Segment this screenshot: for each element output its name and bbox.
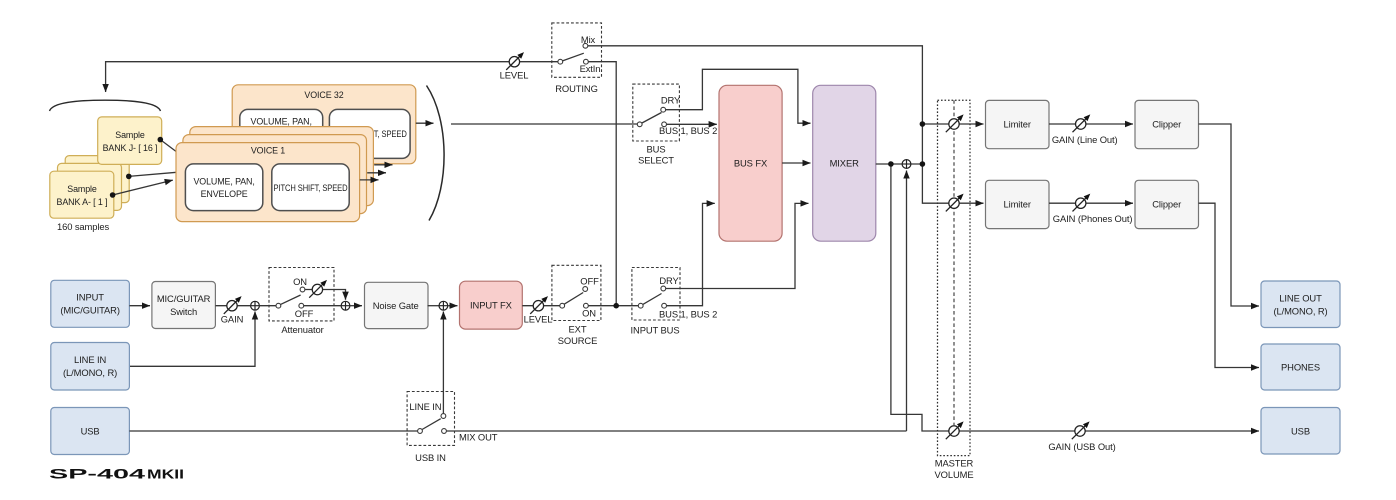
voice card VOICE 32	[232, 85, 416, 164]
wire voice stack A output arrow	[374, 164, 392, 166]
svg-text:BUS FX: BUS FX	[734, 158, 768, 169]
svg-text:DRY: DRY	[659, 275, 679, 286]
svg-text:BUS 1, BUS 2: BUS 1, BUS 2	[659, 125, 717, 136]
wire input bus DRY to mixer	[666, 203, 809, 288]
node mixer output tee	[888, 161, 894, 167]
wire sum to noise gate	[350, 305, 362, 307]
label EXT SOURCE	[558, 323, 598, 346]
svg-text:INPUT BUS: INPUT BUS	[631, 325, 680, 336]
wire mixer output down to USB out line	[891, 164, 1259, 431]
svg-text:Mix: Mix	[581, 34, 596, 45]
block LINE IN (L/MONO, R)	[51, 343, 130, 391]
wire limiter to clipper (line out)	[1049, 123, 1133, 125]
svg-text:GAIN (USB Out): GAIN (USB Out)	[1048, 441, 1115, 452]
sample bank A stack back card	[65, 156, 129, 203]
svg-text:PITCH SHIFT, SPEED: PITCH SHIFT, SPEED	[274, 183, 348, 193]
svg-text:Attenuator: Attenuator	[281, 324, 323, 335]
wire limiter to clipper (phones)	[1049, 202, 1133, 204]
block PHONES	[1261, 344, 1340, 390]
svg-text:INPUT FX: INPUT FX	[470, 300, 513, 311]
summing node input 3	[439, 301, 448, 310]
node output bus junction	[920, 161, 926, 167]
svg-text:Noise Gate: Noise Gate	[373, 300, 419, 311]
wire Mix to output bus	[588, 46, 984, 203]
voice stack middle card A	[190, 127, 374, 206]
wire voices to BUS SELECT	[451, 123, 637, 125]
block INPUT (MIC/GUITAR)	[51, 280, 130, 327]
svg-text:PHONES: PHONES	[1281, 362, 1320, 373]
svg-text:VOICE 32: VOICE 32	[304, 90, 343, 100]
voice stack middle card B	[183, 135, 367, 214]
svg-text:USB: USB	[1291, 425, 1310, 436]
svg-text:MIX OUT: MIX OUT	[459, 432, 498, 443]
wire input to mic/guitar switch	[129, 305, 150, 307]
node ext-in junction	[613, 303, 619, 309]
wire sum to INPUT FX	[448, 305, 457, 307]
wire attenuator ON path	[305, 290, 345, 300]
wire usb line-in branch up to sum	[442, 312, 444, 414]
attenuator GAIN (USB Out)	[1072, 421, 1090, 439]
attenuator symbol (attenuator ON branch)	[309, 280, 327, 298]
summing node input 1	[251, 301, 260, 310]
attenuator GAIN (input)	[224, 296, 242, 314]
wire bank J to voice 1	[158, 137, 177, 152]
wire voice 1 output arrow	[360, 179, 379, 181]
svg-text:Sample: Sample	[115, 130, 145, 140]
svg-text:BUS 1, BUS 2: BUS 1, BUS 2	[659, 309, 717, 320]
svg-text:LINE IN: LINE IN	[74, 354, 106, 365]
closing paren voices group	[427, 86, 445, 221]
svg-text:MIXER: MIXER	[830, 158, 860, 169]
attenuator master volume (phones)	[946, 194, 964, 212]
wire input fx to ext source via LEVEL	[522, 305, 561, 307]
label MASTER VOLUME	[935, 458, 974, 480]
switch BUS SELECT	[633, 84, 681, 141]
block BUS FX	[719, 85, 782, 241]
wire bus select DRY to mixer (over bus fx)	[666, 69, 811, 123]
sample card BANK A- [1]	[50, 171, 114, 218]
wire noise gate to sum	[428, 305, 439, 307]
block Noise Gate	[365, 282, 429, 328]
svg-text:ENVELOPE: ENVELOPE	[201, 189, 248, 199]
svg-text:VOICE 1: VOICE 1	[251, 146, 285, 156]
block USB (in)	[51, 408, 130, 455]
svg-text:Limiter: Limiter	[1003, 119, 1030, 130]
svg-text:(MIC/GUITAR): (MIC/GUITAR)	[60, 305, 120, 316]
block Limiter (line out)	[986, 100, 1050, 148]
block Clipper (line out)	[1135, 100, 1199, 148]
wire recording path (ROUTING to sample banks via LEVEL)	[106, 62, 561, 92]
svg-text:ON: ON	[293, 276, 307, 287]
svg-text:Clipper: Clipper	[1152, 119, 1181, 130]
svg-text:EXT: EXT	[569, 323, 587, 334]
wire ext source to input bus	[589, 305, 639, 307]
attenuator GAIN (Phones Out)	[1073, 194, 1091, 212]
svg-text:GAIN (Line Out): GAIN (Line Out)	[1052, 134, 1118, 145]
attenuator LEVEL (input)	[530, 296, 548, 314]
wire mix out up into sum	[906, 171, 908, 432]
switch Attenuator ON/OFF	[269, 268, 334, 321]
svg-text:DRY: DRY	[661, 95, 681, 106]
block INPUT FX	[460, 281, 523, 329]
wire attenuator OFF path	[304, 305, 341, 307]
attenuator master volume (usb)	[946, 421, 964, 439]
block LINE OUT (L/MONO, R)	[1261, 281, 1340, 328]
svg-text:GAIN: GAIN	[221, 313, 244, 324]
svg-text:USB: USB	[81, 426, 100, 437]
block Limiter (phones)	[986, 180, 1050, 228]
wire line-out feed	[922, 123, 983, 125]
svg-text:VOLUME, PAN,: VOLUME, PAN,	[193, 177, 254, 187]
svg-text:MIC/GUITAR: MIC/GUITAR	[157, 293, 211, 304]
wire voice stack B output arrow	[367, 172, 386, 174]
svg-text:(L/MONO, R): (L/MONO, R)	[63, 367, 117, 378]
svg-text:VOLUME: VOLUME	[935, 469, 974, 480]
svg-text:ROUTING: ROUTING	[555, 83, 598, 94]
wire switch to sum via GAIN	[215, 305, 250, 307]
svg-text:SELECT: SELECT	[638, 155, 674, 166]
svg-text:LEVEL: LEVEL	[524, 313, 553, 324]
wire bank A to voice 1 (arrow)	[110, 180, 173, 198]
svg-text:LINE OUT: LINE OUT	[1279, 292, 1322, 303]
attenuator GAIN (Line Out)	[1073, 114, 1091, 132]
sample bank A stack middle card	[58, 163, 122, 210]
svg-text:LEVEL: LEVEL	[500, 70, 529, 81]
svg-text:INPUT: INPUT	[76, 292, 104, 303]
svg-text:VOLUME, PAN,: VOLUME, PAN,	[251, 117, 312, 127]
wire LINE IN to sum	[129, 312, 255, 367]
svg-text:ExtIn: ExtIn	[580, 63, 601, 74]
summing node output	[902, 160, 911, 169]
wire bus select BUS to bus fx	[667, 123, 717, 125]
wire clipper to PHONES box	[1199, 203, 1260, 367]
logo SP-404MKII	[49, 466, 184, 482]
wire clipper to LINE OUT box	[1199, 124, 1260, 306]
block USB (out)	[1261, 408, 1340, 455]
dashed box MASTER VOLUME	[938, 100, 971, 455]
svg-text:MKII: MKII	[147, 468, 184, 482]
label BUS SELECT	[638, 144, 674, 166]
node line-out tee	[920, 121, 926, 127]
wire input bus BUS to bus fx	[667, 203, 715, 305]
svg-text:Sample: Sample	[67, 184, 97, 194]
svg-text:BANK A- [ 1 ]: BANK A- [ 1 ]	[57, 197, 108, 207]
svg-text:OFF: OFF	[295, 308, 314, 319]
block Clipper (phones)	[1135, 180, 1199, 228]
block MIC/GUITAR Switch	[152, 282, 216, 329]
svg-text:BANK J- [ 16 ]: BANK J- [ 16 ]	[103, 143, 158, 153]
svg-text:GAIN (Phones Out): GAIN (Phones Out)	[1053, 213, 1133, 224]
wire bus fx to mixer	[782, 162, 810, 164]
switch INPUT BUS	[632, 268, 680, 321]
wire voice 32 output arrow	[416, 122, 434, 124]
svg-text:USB IN: USB IN	[415, 452, 446, 463]
wire mixer output to junction	[876, 163, 923, 165]
brace over sample banks	[50, 100, 161, 111]
svg-text:(L/MONO, R): (L/MONO, R)	[1273, 305, 1327, 316]
wire ExtIn down to input chain	[589, 62, 617, 306]
switch USB IN	[407, 392, 454, 446]
svg-text:LINE IN: LINE IN	[409, 401, 441, 412]
svg-text:Switch: Switch	[170, 306, 197, 317]
svg-text:160 samples: 160 samples	[57, 221, 109, 232]
svg-text:SP-404: SP-404	[49, 466, 145, 482]
svg-text:Limiter: Limiter	[1003, 198, 1030, 209]
attenuator LEVEL (recording)	[506, 52, 524, 70]
svg-text:OFF: OFF	[580, 275, 599, 286]
svg-text:BUS: BUS	[647, 144, 666, 155]
block MIXER	[813, 85, 876, 241]
wire mix out to output sum	[447, 430, 907, 432]
svg-text:SOURCE: SOURCE	[558, 335, 598, 346]
svg-text:Clipper: Clipper	[1152, 198, 1181, 209]
wire sum to attenuator switch	[260, 305, 277, 307]
switch ROUTING	[552, 23, 602, 77]
wire bank middle to voice 1	[126, 172, 177, 179]
wire usb to usb-in switch	[129, 430, 418, 432]
attenuator master volume (line out)	[946, 114, 964, 132]
switch EXT SOURCE	[552, 265, 601, 320]
svg-text:ON: ON	[582, 308, 596, 319]
sample card BANK J- [16]	[98, 117, 162, 164]
summing node input 2	[341, 301, 350, 310]
svg-text:MASTER: MASTER	[935, 458, 974, 469]
voice card VOICE 1	[176, 143, 360, 222]
